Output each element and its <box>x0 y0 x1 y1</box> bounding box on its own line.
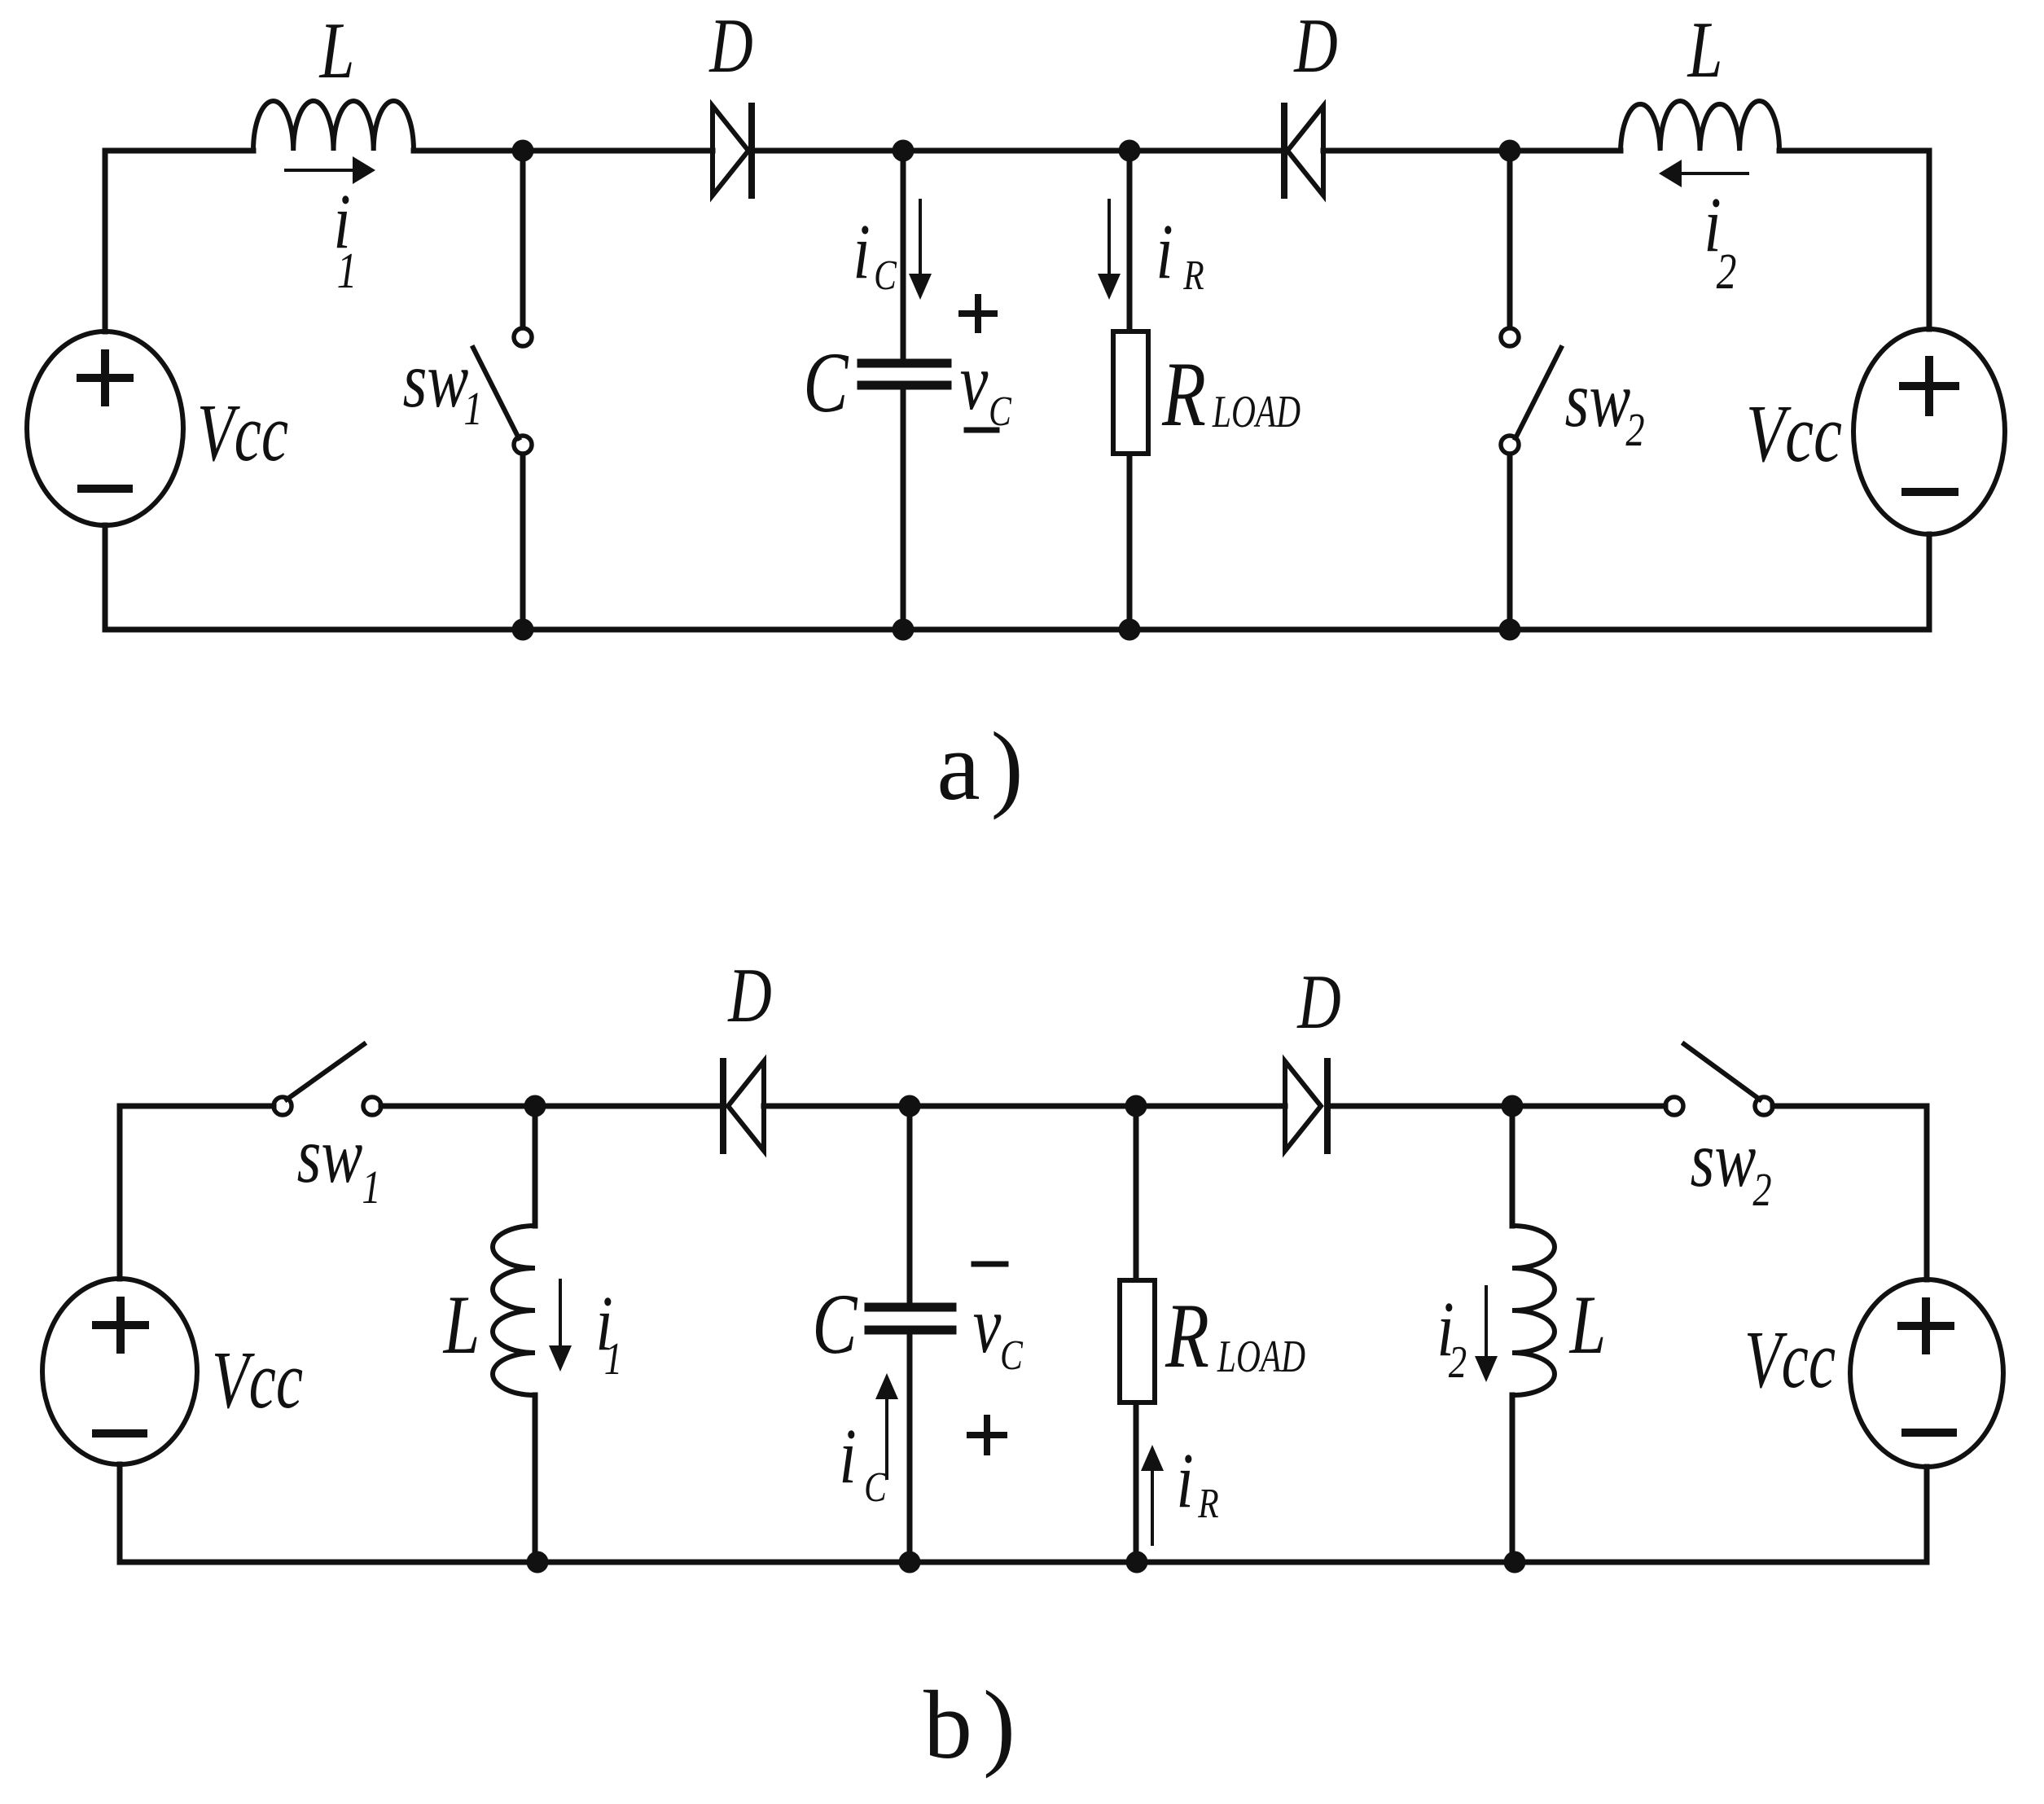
svg-text:2: 2 <box>1625 404 1644 456</box>
svg-text:v: v <box>960 337 989 427</box>
svg-text:C: C <box>874 252 897 299</box>
svg-text:D: D <box>1296 959 1340 1045</box>
svg-text:1: 1 <box>362 1161 380 1214</box>
svg-text:i: i <box>839 1413 856 1499</box>
svg-text:i: i <box>1176 1437 1193 1524</box>
svg-text:v: v <box>973 1280 1002 1370</box>
svg-text:sw: sw <box>403 336 469 424</box>
svg-text:2: 2 <box>1449 1337 1467 1387</box>
svg-text:2: 2 <box>1752 1164 1771 1216</box>
svg-text:L: L <box>1568 1279 1606 1372</box>
svg-text:C: C <box>803 334 849 430</box>
svg-text:sw: sw <box>297 1112 363 1200</box>
svg-text:R: R <box>1161 344 1206 446</box>
svg-text:b): b) <box>923 1670 1026 1779</box>
svg-text:R: R <box>1197 1481 1218 1527</box>
svg-text:sw: sw <box>1691 1116 1757 1204</box>
svg-text:C: C <box>1000 1332 1023 1379</box>
svg-text:sw: sw <box>1565 356 1631 444</box>
svg-text:Vcc: Vcc <box>212 1335 303 1425</box>
svg-text:Vcc: Vcc <box>1746 388 1842 480</box>
svg-text:D: D <box>1293 3 1337 89</box>
svg-text:2: 2 <box>1717 244 1737 300</box>
svg-text:L: L <box>442 1279 480 1372</box>
svg-text:1: 1 <box>463 383 482 435</box>
svg-text:Vcc: Vcc <box>1744 1315 1836 1405</box>
svg-text:R: R <box>1182 252 1204 299</box>
svg-text:i: i <box>1156 208 1173 295</box>
svg-text:C: C <box>989 388 1011 435</box>
svg-text:R: R <box>1165 1285 1209 1387</box>
svg-text:a): a) <box>936 712 1033 820</box>
svg-text:D: D <box>708 3 752 89</box>
svg-text:1: 1 <box>604 1333 622 1384</box>
svg-text:i: i <box>853 208 870 295</box>
svg-text:C: C <box>812 1275 858 1372</box>
svg-text:D: D <box>727 953 771 1038</box>
svg-text:LOAD: LOAD <box>1212 386 1301 437</box>
svg-text:1: 1 <box>337 244 357 299</box>
svg-text:LOAD: LOAD <box>1217 1331 1305 1382</box>
svg-text:L: L <box>1687 6 1723 94</box>
svg-text:C: C <box>864 1464 887 1511</box>
svg-text:L: L <box>318 7 355 95</box>
svg-text:Vcc: Vcc <box>197 388 288 478</box>
